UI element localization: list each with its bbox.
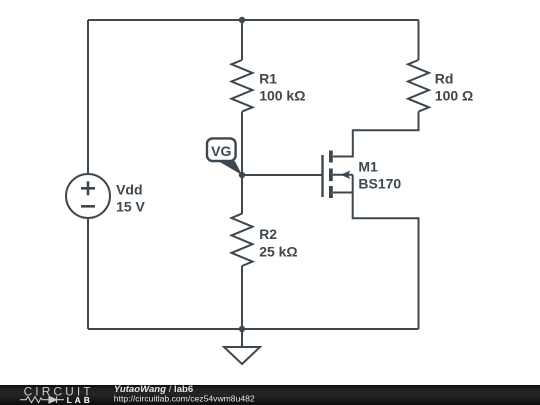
wire gate — [242, 174, 323, 176]
svg-text:R2: R2 — [259, 226, 277, 242]
source channel bar — [329, 186, 333, 198]
wire top rail — [88, 19, 419, 21]
svg-text:R1: R1 — [259, 70, 277, 86]
svg-text:BS170: BS170 — [358, 176, 401, 192]
footer bar — [0, 385, 540, 405]
body arrow — [341, 171, 351, 180]
drain channel bar — [329, 151, 333, 163]
voltage source Vdd — [66, 174, 146, 218]
node VG callout — [207, 138, 242, 175]
junction dot top node — [239, 17, 245, 23]
svg-text:Rd: Rd — [435, 70, 454, 86]
resistor R1 — [232, 60, 306, 112]
junction dot bottom node — [239, 326, 245, 332]
logo squiggle resistor-diode — [20, 396, 64, 403]
body channel bar — [329, 169, 333, 182]
transistor M1 — [323, 151, 402, 199]
wire bottom rail — [88, 328, 419, 330]
wire R1 bottom to node VG — [241, 112, 243, 175]
svg-text:LAB: LAB — [67, 395, 93, 405]
resistor Rd — [408, 60, 473, 112]
wire left rail upper — [87, 20, 89, 174]
svg-text:Vdd: Vdd — [116, 181, 142, 197]
junction dot node VG — [239, 172, 245, 178]
wire left rail lower — [87, 218, 89, 329]
wire Rd bottom lead to drain — [333, 112, 419, 157]
gate plate — [321, 155, 323, 197]
body wire — [333, 174, 353, 176]
svg-text:M1: M1 — [358, 158, 378, 174]
svg-text:15 V: 15 V — [116, 199, 145, 215]
ground — [224, 329, 260, 364]
wire R1 top lead — [241, 20, 243, 60]
wire Rd top lead — [418, 20, 420, 60]
wire source to bottom rail — [333, 175, 419, 329]
wire R2 bottom lead — [241, 266, 243, 329]
wire node VG to R2 top — [241, 175, 243, 214]
svg-text:100 Ω: 100 Ω — [435, 88, 473, 104]
resistor R2 — [232, 214, 298, 266]
svg-text:VG: VG — [211, 143, 231, 159]
svg-text:100 kΩ: 100 kΩ — [259, 88, 305, 104]
svg-text:25 kΩ: 25 kΩ — [259, 243, 297, 259]
svg-text:http://circuitlab.com/cez54vwm: http://circuitlab.com/cez54vwm8u482 — [114, 393, 255, 403]
